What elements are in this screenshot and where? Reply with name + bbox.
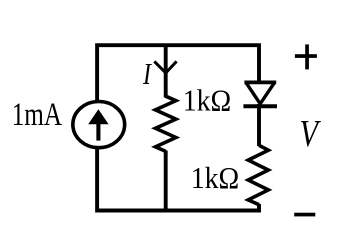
svg-text:1mA: 1mA bbox=[12, 97, 63, 133]
current direction arrow for I on middle branch bbox=[154, 61, 176, 73]
label − (negative terminal of V) bbox=[294, 213, 315, 217]
diode D (cathode down) bbox=[243, 82, 277, 106]
resistor 1kOhm (right branch) zigzag bbox=[248, 145, 268, 204]
resistor 1kOhm (middle branch) zigzag bbox=[155, 96, 176, 151]
label + (positive terminal of V) bbox=[295, 44, 317, 69]
wire: left lower segment, bottom rail, right lower stub bbox=[97, 147, 259, 211]
svg-text:V: V bbox=[300, 113, 322, 155]
svg-text:1kΩ: 1kΩ bbox=[183, 84, 232, 118]
wire: top rail with left and right upper segments bbox=[97, 45, 259, 103]
svg-text:I: I bbox=[142, 57, 152, 91]
wire: middle branch upper segment bbox=[164, 45, 168, 97]
wire: middle branch lower segment bbox=[164, 151, 168, 211]
svg-text:1kΩ: 1kΩ bbox=[191, 161, 240, 195]
wire: segment between diode cathode and right resistor bbox=[257, 104, 261, 146]
current source 1mA (ellipse with upward arrow) bbox=[73, 102, 125, 148]
